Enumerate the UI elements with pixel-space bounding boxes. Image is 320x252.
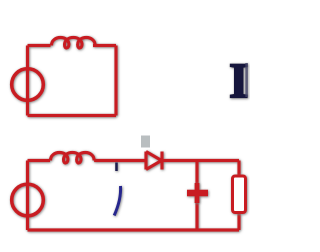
wire top-left segment (bottom circuit) — [28, 159, 51, 162]
wire bottom (top circuit) — [28, 114, 117, 117]
inductor L2 (bottom circuit) — [50, 152, 94, 163]
inductor L1 (top circuit) — [51, 37, 95, 48]
label i stem tick (below top wire) — [115, 163, 118, 172]
wire right side (bottom circuit) — [237, 161, 240, 176]
wire top-right segment (top circuit) — [93, 44, 116, 47]
diode D1 anode triangle — [146, 152, 162, 170]
diode D1 cathode bar — [160, 152, 163, 170]
cursor bar beside label I — [245, 63, 248, 97]
wire diode to top-right corner (bottom circuit) — [162, 159, 240, 162]
wire from inductor to diode (bottom circuit) — [94, 159, 146, 162]
wire middle branch (bottom circuit) — [195, 161, 198, 231]
resistor R1 (white box, bottom-right branch) — [233, 176, 246, 213]
wire top-left segment (top circuit) — [28, 44, 51, 47]
current source I2 (bottom circuit) — [12, 184, 44, 216]
wire right side (top circuit) — [114, 46, 117, 116]
label i body (italic stroke) — [114, 186, 120, 216]
wire bottom (bottom circuit) — [28, 228, 240, 231]
wire below resistor (bottom circuit) — [237, 214, 240, 231]
capacitor C1 plus marker horizontal arm — [187, 190, 208, 197]
capacitor C1 plus marker vertical arm — [195, 183, 200, 203]
wire left side (bottom circuit) — [26, 161, 29, 231]
wire left side (top circuit) — [26, 46, 29, 116]
current source I1 (top circuit) — [12, 69, 44, 101]
label D smudge above diode — [141, 136, 150, 148]
